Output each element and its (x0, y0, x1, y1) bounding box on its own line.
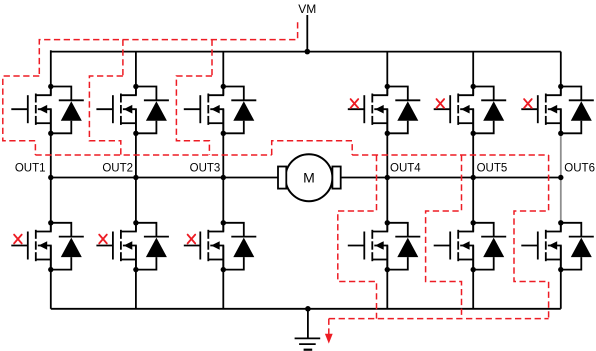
node OUT6 dot (558, 175, 563, 180)
transistor high-side OUT5 with body diode (434, 84, 507, 136)
wire red detour around HS3 (176, 76, 212, 155)
svg-text:OUT6: OUT6 (564, 163, 595, 175)
red arrowhead at ground (325, 334, 333, 344)
node VM junction dot (305, 49, 311, 55)
svg-text:VM: VM (298, 2, 316, 16)
X mark high-side OUT5 off (437, 99, 445, 108)
svg-text:OUT3: OUT3 (190, 163, 221, 175)
svg-text:M: M (303, 170, 315, 186)
svg-text:OUT4: OUT4 (390, 163, 421, 175)
transistor low-side OUT4 with body diode (348, 220, 421, 272)
wire column6 rail to HS drain (560, 52, 562, 95)
wire column2 LS source to bottom rail (135, 246, 137, 309)
wire red arrow stem to ground (328, 319, 330, 335)
wire column6 LS drain stub (560, 221, 562, 232)
X mark high-side OUT4 off (351, 99, 359, 108)
X mark low-side OUT3 off (188, 235, 196, 244)
wire bottom ground rail (51, 308, 561, 310)
node OUT4 dot (385, 175, 390, 180)
wire column6 LS source to bottom rail (560, 246, 562, 309)
wire red common bottom rail (329, 318, 549, 320)
wire column1 LS source to bottom rail (50, 246, 52, 309)
X mark low-side OUT1 off (14, 235, 22, 244)
wire to ground symbol (307, 309, 309, 339)
wire column5 LS source to bottom rail (472, 246, 474, 309)
wire red detour around LS4 (338, 155, 377, 319)
wire column3 rail to HS drain (222, 52, 224, 95)
transistor high-side OUT1 with body diode (11, 84, 84, 136)
wire red detour around LS6 (514, 155, 549, 319)
wire red common left rail (35, 154, 271, 156)
transistor low-side OUT3 with body diode (184, 220, 256, 272)
motor M (278, 154, 341, 201)
wire red drop to HS2 (122, 40, 124, 76)
node ground junction dot (305, 306, 311, 312)
svg-text:OUT1: OUT1 (15, 163, 46, 175)
wire column1 HS body to OUT1 (50, 109, 52, 231)
ground (295, 338, 321, 349)
transistor high-side OUT4 with body diode (348, 84, 421, 136)
transistor low-side OUT1 with body diode (11, 220, 84, 272)
wire OUT rail right (motor to OUT4-OUT6) (341, 177, 561, 179)
node OUT2 dot (133, 175, 138, 180)
node OUT3 dot (221, 175, 226, 180)
wire column3 LS source to bottom rail (222, 246, 224, 309)
transistor high-side OUT3 with body diode (184, 84, 256, 136)
wire red current path: VM feed top (39, 22, 297, 76)
wire column5 HS body to OUT5 (472, 109, 474, 231)
wire column2 HS body to OUT2 (135, 109, 137, 231)
transistor low-side OUT6 with body diode (521, 220, 594, 272)
wire column2 rail to HS drain (135, 52, 137, 95)
X mark low-side OUT2 off (99, 235, 107, 244)
wire VM to top rail (306, 15, 308, 52)
transistor high-side OUT6 with body diode (521, 84, 594, 136)
svg-text:OUT5: OUT5 (477, 163, 508, 175)
wire column3 HS body to OUT3 (222, 109, 224, 231)
wire red common right rail (352, 154, 548, 156)
transistor low-side OUT2 with body diode (96, 220, 169, 272)
wire column6 OUT6 segment (gray) (560, 134, 562, 223)
wire red jump over motor (272, 141, 353, 155)
wire column4 rail to HS drain (386, 52, 388, 95)
wire column1 rail to HS drain (50, 50, 52, 95)
node OUT5 dot (471, 175, 476, 180)
transistor low-side OUT5 with body diode (434, 220, 507, 272)
node OUT1 dot (48, 175, 53, 180)
svg-text:OUT2: OUT2 (102, 163, 133, 175)
wire red detour around LS5 (426, 155, 462, 319)
wire red drop to HS3 (211, 40, 213, 76)
wire top VM rail (51, 51, 561, 53)
X mark high-side OUT6 off (524, 99, 532, 108)
wire column4 HS body to OUT4 (386, 109, 388, 231)
wire red detour around HS1 (3, 76, 40, 155)
wire OUT rail left (OUT1-OUT3 to motor) (51, 177, 278, 179)
wire column4 LS source to bottom rail (386, 246, 388, 309)
transistor high-side OUT2 with body diode (96, 84, 169, 136)
wire red detour around HS2 (89, 76, 123, 155)
wire column6 HS body to HS source (560, 109, 562, 134)
wire column5 rail to HS drain (472, 52, 474, 95)
